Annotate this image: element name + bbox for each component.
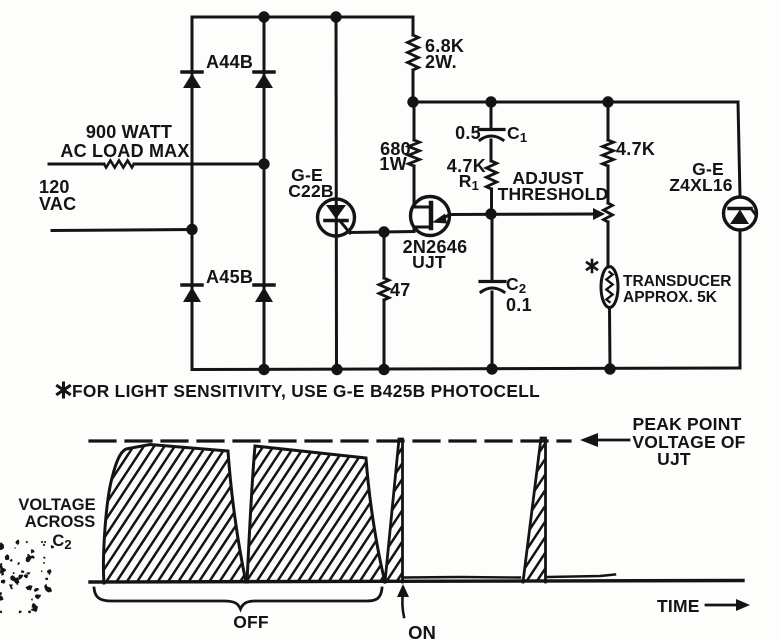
svg-text:C2: C2 xyxy=(52,532,71,552)
svg-text:0.1: 0.1 xyxy=(506,295,532,315)
node bottom rail transducer xyxy=(606,365,614,373)
transducer xyxy=(601,267,618,308)
node top rail junction V2 xyxy=(260,13,268,21)
svg-text:C2: C2 xyxy=(506,274,526,296)
svg-text:A44B: A44B xyxy=(206,52,253,72)
graph spike2 xyxy=(523,438,546,582)
svg-text:0.5: 0.5 xyxy=(455,123,481,143)
node bottom rail SCR xyxy=(333,365,341,373)
graph dashed peak line xyxy=(90,439,570,442)
svg-text:47: 47 xyxy=(390,280,411,300)
svg-text:ACROSS: ACROSS xyxy=(25,513,96,531)
capacitor C1 xyxy=(490,102,493,128)
svg-text:VAC: VAC xyxy=(39,194,76,214)
svg-text:UJT: UJT xyxy=(657,449,691,469)
wire emitter/wiper horizontal xyxy=(450,213,596,217)
svg-text:APPROX. 5K: APPROX. 5K xyxy=(623,289,718,306)
SCR G-E C22B xyxy=(318,199,355,236)
wire bottom rail xyxy=(192,368,740,370)
svg-text:THRESHOLD: THRESHOLD xyxy=(498,184,609,204)
svg-text:ON: ON xyxy=(408,622,436,641)
diode A45B left xyxy=(182,285,202,302)
node upper AC at V2 xyxy=(260,160,268,168)
svg-text:C1: C1 xyxy=(507,123,527,145)
asterisk footnote xyxy=(58,383,70,397)
node second rail at pot xyxy=(604,98,612,106)
node bottom rail C2 xyxy=(488,365,496,373)
wire lower AC line xyxy=(52,230,192,231)
node top rail junction V3 xyxy=(332,13,340,21)
svg-text:TRANSDUCER: TRANSDUCER xyxy=(623,273,732,290)
svg-text:VOLTAGE: VOLTAGE xyxy=(18,496,95,514)
diode A44B right xyxy=(254,72,274,88)
node bottom rail 47ohm xyxy=(380,365,388,373)
graph low line between spikes xyxy=(403,576,520,579)
svg-text:OFF: OFF xyxy=(233,612,269,632)
resistor R1 4.7K xyxy=(486,161,496,189)
graph spike1 xyxy=(385,439,403,582)
wire SCR anode/cathode vertical xyxy=(335,17,339,369)
node second rail at 6.8K xyxy=(409,98,417,106)
svg-text:PEAK POINT: PEAK POINT xyxy=(633,414,742,434)
transistor UJT 2N2646 xyxy=(411,197,450,236)
graph peak point arrow xyxy=(594,439,629,442)
load resistor squiggle xyxy=(104,161,134,168)
diode A44B left xyxy=(182,72,202,88)
node lower AC at V1 xyxy=(188,225,196,233)
node emitter wire at C1/R1 xyxy=(487,210,495,218)
ink splatter xyxy=(0,540,54,614)
capacitor C2 xyxy=(491,214,494,280)
wire SCR gate to UJT base1 xyxy=(350,232,414,233)
svg-text:2W.: 2W. xyxy=(425,52,457,72)
zener G-E Z4XL16 xyxy=(738,102,740,197)
asterisk transducer xyxy=(587,260,597,272)
node gate wire at 47ohm xyxy=(380,228,388,236)
svg-text:C22B: C22B xyxy=(288,181,334,201)
wire left bridge vertical xyxy=(191,17,194,369)
wire upper AC line xyxy=(49,163,104,166)
svg-text:Z4XL16: Z4XL16 xyxy=(669,175,733,195)
node bottom rail V2 xyxy=(260,365,268,373)
resistor 47 xyxy=(383,232,386,278)
svg-text:AC LOAD MAX: AC LOAD MAX xyxy=(60,141,189,161)
svg-text:900 WATT: 900 WATT xyxy=(86,122,172,142)
graph OFF brace xyxy=(94,588,382,609)
svg-text:TIME: TIME xyxy=(657,596,700,616)
graph baseline xyxy=(90,581,743,583)
graph hump2 xyxy=(247,446,385,582)
wire second bridge vertical xyxy=(263,17,266,369)
svg-text:A45B: A45B xyxy=(206,267,253,287)
resistor 680 1W xyxy=(413,102,416,140)
node second rail at C1 xyxy=(487,98,495,106)
svg-text:UJT: UJT xyxy=(412,252,446,272)
wire second rail xyxy=(413,101,738,104)
potentiometer 4.7K xyxy=(607,102,610,140)
svg-text:4.7K: 4.7K xyxy=(616,139,655,159)
graph ON arrow xyxy=(402,592,404,617)
svg-text:1W: 1W xyxy=(379,154,407,174)
diode A45B right xyxy=(254,285,274,302)
graph hump1 xyxy=(103,445,246,584)
resistor 6.8K 2W xyxy=(412,17,415,35)
pot wiper arrowhead xyxy=(593,208,605,220)
wire top rail xyxy=(192,16,413,19)
graph TIME arrow xyxy=(706,604,737,607)
svg-text:FOR LIGHT SENSITIVITY, USE G-: FOR LIGHT SENSITIVITY, USE G-E B425B PHO… xyxy=(72,381,540,401)
